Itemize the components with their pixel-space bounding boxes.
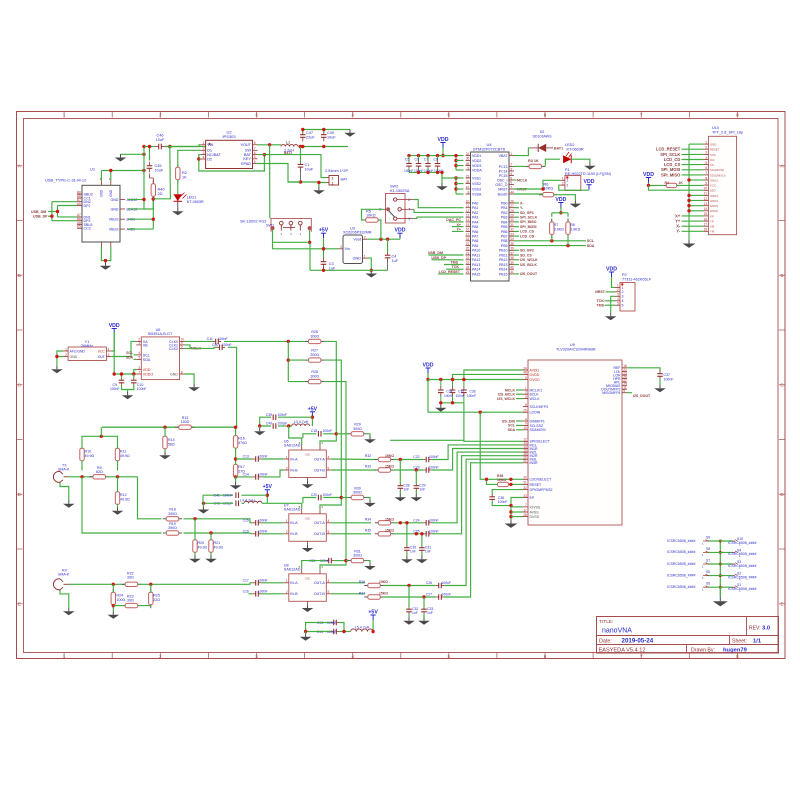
ground R14 <box>159 452 171 459</box>
wire C17 <box>249 583 284 585</box>
wire SDA <box>514 235 595 248</box>
svg-text:2: 2 <box>622 290 624 294</box>
ground R21 <box>205 556 217 563</box>
svg-text:PC15: PC15 <box>499 174 508 178</box>
svg-text:100nF: 100nF <box>444 394 453 398</box>
led LED2 <box>545 143 584 166</box>
wire U10 signal nets <box>656 147 703 178</box>
svg-text:SCL: SCL <box>587 239 595 243</box>
svg-text:2: 2 <box>332 176 334 180</box>
wire C23-IN1R <box>432 449 523 471</box>
wire LDOIN <box>428 380 523 414</box>
svg-text:ICSRC6508_####: ICSRC6508_#### <box>667 573 695 577</box>
svg-text:C4: C4 <box>392 255 397 259</box>
svg-text:Si5351A-B-GT: Si5351A-B-GT <box>148 332 173 336</box>
svg-text:49.9Ω: 49.9Ω <box>120 497 130 501</box>
svg-text:VCC: VCC <box>98 349 106 353</box>
ground U3 <box>366 270 378 277</box>
svg-text:I2S_DOUT: I2S_DOUT <box>633 394 651 398</box>
svg-text:150Ω: 150Ω <box>181 420 190 424</box>
svg-text:ICSRC6508_####: ICSRC6508_#### <box>667 539 695 543</box>
svg-text:3: 3 <box>705 151 707 155</box>
svg-text:300Ω: 300Ω <box>353 491 362 495</box>
wire C37 gnd <box>659 378 661 385</box>
svg-text:NRST: NRST <box>595 290 606 294</box>
svg-text:E: E <box>780 601 783 606</box>
svg-text:GND4: GND4 <box>710 199 718 203</box>
wire U1 top GND rail <box>101 169 145 181</box>
wire PC13-R3 <box>514 165 525 167</box>
capacitor C47 <box>300 131 315 142</box>
svg-text:BAT1: BAT1 <box>554 146 563 150</box>
wire AVDD <box>462 370 523 381</box>
svg-text:EPAD: EPAD <box>241 162 251 166</box>
svg-text:PB9: PB9 <box>501 244 508 248</box>
svg-text:C47: C47 <box>306 131 313 135</box>
resistor R20 <box>193 536 208 556</box>
wire row c42 <box>202 502 244 505</box>
svg-text:12: 12 <box>704 197 708 201</box>
capacitors C34-C36 <box>438 380 476 403</box>
capacitor C17 <box>243 579 268 586</box>
capacitor C33 <box>421 606 433 615</box>
svg-text:11: 11 <box>704 192 708 196</box>
svg-text:100nF: 100nF <box>323 493 333 497</box>
svg-text:USB_TYPE-C-31-M-12: USB_TYPE-C-31-M-12 <box>45 178 87 183</box>
svg-text:PA8: PA8 <box>472 239 478 243</box>
svg-text:8: 8 <box>705 176 707 180</box>
wire TCK u4 <box>446 265 464 269</box>
svg-text:2: 2 <box>364 236 366 240</box>
svg-text:VDD2: VDD2 <box>472 159 481 163</box>
svg-text:LDOIN: LDOIN <box>530 411 541 415</box>
wire VDDA stub <box>456 169 464 171</box>
svg-text:IN3R: IN3R <box>530 461 538 465</box>
svg-text:PB11: PB11 <box>499 253 507 257</box>
svg-text:R4: R4 <box>665 181 669 185</box>
wire Y1 VCC <box>111 332 114 351</box>
svg-text:VDDO: VDDO <box>143 372 154 376</box>
svg-text:8: 8 <box>468 190 470 194</box>
svg-text:1: 1 <box>364 254 366 258</box>
svg-text:OSC_O: OSC_O <box>495 183 508 187</box>
svg-text:C23: C23 <box>413 466 419 470</box>
svg-text:R33: R33 <box>365 465 371 469</box>
wire C24-IN2L <box>432 452 523 523</box>
svg-text:21: 21 <box>466 251 470 255</box>
svg-text:5: 5 <box>617 302 619 306</box>
capacitor C14 <box>243 473 268 480</box>
wire VDD-R4 <box>647 183 704 191</box>
svg-text:IN-B: IN-B <box>290 592 298 596</box>
capacitor C10 <box>131 377 146 391</box>
svg-text:48: 48 <box>523 371 527 375</box>
svg-text:PB7: PB7 <box>501 235 508 239</box>
wire C46 left <box>144 146 155 148</box>
wire C9C10 top <box>120 372 134 378</box>
svg-text:LCD_CS: LCD_CS <box>520 230 535 234</box>
wire SW1 bar <box>273 241 310 243</box>
svg-text:DVSS: DVSS <box>530 515 540 519</box>
wire R18 out <box>184 517 249 520</box>
net labels U4 PB side <box>514 201 538 276</box>
svg-text:10: 10 <box>704 187 708 191</box>
svg-text:L3 4.7uH: L3 4.7uH <box>294 420 309 424</box>
resistor R12 <box>115 488 130 508</box>
svg-text:LED: LED <box>710 189 716 193</box>
svg-text:R32: R32 <box>365 454 371 458</box>
svg-text:SCL: SCL <box>508 424 516 428</box>
net label SCL u5 <box>126 351 136 355</box>
svg-text:300Ω: 300Ω <box>310 353 319 357</box>
wire C14 <box>236 470 284 477</box>
resistor R23 <box>122 595 141 608</box>
svg-text:C1: C1 <box>305 163 310 167</box>
wire C3 bottom <box>323 266 325 270</box>
net label Y+ <box>452 228 464 232</box>
svg-text:PB13: PB13 <box>499 263 508 267</box>
ground U1 top <box>115 153 146 162</box>
wire R36-C26 <box>383 584 436 587</box>
wire BAT rail <box>258 155 327 178</box>
svg-text:2: 2 <box>566 184 568 188</box>
ground LED1 <box>172 201 184 215</box>
wire U2 D2 <box>199 158 201 160</box>
svg-text:RESET: RESET <box>530 483 543 487</box>
wire TX-R18R19 <box>82 477 162 533</box>
wire VOUT down to SW1 <box>269 145 271 219</box>
wire L4 out <box>262 502 267 504</box>
svg-text:12: 12 <box>466 209 470 213</box>
svg-text:OUT-A: OUT-A <box>314 457 326 461</box>
svg-text:1: 1 <box>332 181 334 185</box>
svg-text:16: 16 <box>466 228 470 232</box>
inductor L4 <box>240 499 262 504</box>
wire U6 outB <box>331 469 375 471</box>
wire R21 <box>210 533 212 556</box>
svg-text:PB14: PB14 <box>499 268 508 272</box>
svg-text:C24: C24 <box>413 519 419 523</box>
ground Y1 <box>51 366 63 373</box>
svg-text:36: 36 <box>466 157 470 161</box>
svg-text:C41: C41 <box>214 494 220 498</box>
svg-text:PB2: PB2 <box>501 211 508 215</box>
svg-text:IOVSS: IOVSS <box>530 505 541 509</box>
svg-text:Y-: Y- <box>676 229 681 234</box>
svg-text:SPI_MISO: SPI_MISO <box>661 172 681 177</box>
svg-text:TCK: TCK <box>452 265 460 269</box>
svg-text:nanoVNA: nanoVNA <box>602 627 632 634</box>
svg-text:I2S_BCLK: I2S_BCLK <box>498 393 515 397</box>
ground R29 <box>364 436 376 443</box>
resistor R34 <box>365 518 394 526</box>
svg-text:GND6: GND6 <box>710 209 718 213</box>
svg-text:PB5: PB5 <box>501 225 508 229</box>
svg-text:1/1: 1/1 <box>753 639 762 645</box>
svg-text:VDD1: VDD1 <box>472 154 481 158</box>
svg-text:VBUS: VBUS <box>109 228 119 232</box>
svg-text:L1: L1 <box>286 141 290 145</box>
capacitor C22 <box>413 455 438 462</box>
ground cl u6 <box>254 428 266 435</box>
svg-text:OUT: OUT <box>98 355 105 359</box>
capacitor C46 <box>155 134 166 150</box>
led LED1 <box>174 180 205 204</box>
svg-text:D2: D2 <box>207 157 212 161</box>
resistor R2 <box>176 164 188 183</box>
svg-text:5: 5 <box>622 304 624 308</box>
wire B1A12 <box>128 208 144 210</box>
svg-text:VBAT: VBAT <box>499 154 509 158</box>
capacitor C21 <box>309 558 334 564</box>
svg-text:1: 1 <box>203 141 205 145</box>
svg-text:11: 11 <box>466 204 470 208</box>
svg-text:S5: S5 <box>706 582 710 586</box>
wire SW2 C-R5 <box>362 209 384 220</box>
svg-text:Drawn By:: Drawn By: <box>691 648 715 654</box>
ground U8 <box>302 605 314 612</box>
capacitor C38 <box>489 494 507 504</box>
svg-text:33: 33 <box>523 494 527 498</box>
svg-text:100nF: 100nF <box>258 455 268 459</box>
svg-text:I2S_DIN: I2S_DIN <box>502 419 516 423</box>
svg-text:R8: R8 <box>570 223 575 227</box>
wire cl u6 <box>258 417 312 428</box>
wire clk bus <box>287 341 306 381</box>
ground switches <box>713 587 728 606</box>
wire U7 vcc <box>267 503 301 509</box>
svg-text:35: 35 <box>466 180 470 184</box>
svg-text:17: 17 <box>704 223 708 227</box>
svg-text:3: 3 <box>138 366 140 370</box>
svg-text:OSC: OSC <box>305 576 311 580</box>
wire LCD_RESET u4 <box>438 270 464 274</box>
svg-text:1nF: 1nF <box>419 487 425 491</box>
svg-text:9: 9 <box>468 166 470 170</box>
svg-text:PA7: PA7 <box>472 235 478 239</box>
svg-text:VSS3: VSS3 <box>472 187 481 191</box>
wire U2 NC/BAT-D2 loop <box>197 153 266 171</box>
svg-text:C35: C35 <box>458 390 464 394</box>
resistor R8 <box>566 218 581 238</box>
wire C21 left <box>302 561 326 569</box>
svg-text:GND: GND <box>710 143 716 147</box>
svg-text:SDO(MISO): SDO(MISO) <box>710 173 726 177</box>
ground R30 <box>364 500 376 507</box>
wire C1 bottom <box>288 169 319 184</box>
wire U10 touch nets <box>675 213 703 233</box>
net label X+ <box>452 223 464 227</box>
svg-text:41: 41 <box>510 270 514 274</box>
wire REF-C37 <box>627 368 660 372</box>
svg-text:3.9KΩ: 3.9KΩ <box>570 227 580 231</box>
svg-text:TCK: TCK <box>597 299 605 303</box>
capacitor C31 <box>419 545 431 554</box>
svg-text:3: 3 <box>525 395 527 399</box>
svg-text:1nF: 1nF <box>427 611 433 615</box>
svg-text:C36: C36 <box>470 390 476 394</box>
svg-text:AVDD: AVDD <box>530 368 540 372</box>
svg-text:C6: C6 <box>415 157 419 161</box>
capacitor C40 u6 <box>266 422 287 429</box>
svg-text:C16: C16 <box>243 590 249 594</box>
wire R4-LED pin <box>678 184 704 186</box>
svg-text:PB1: PB1 <box>501 206 508 210</box>
ground C28 <box>395 494 407 501</box>
svg-text:B: B <box>18 273 21 278</box>
wire TMS u4 <box>444 261 464 265</box>
wire SW2-PA1 <box>414 200 464 208</box>
wire R16-R17 <box>234 426 237 483</box>
ground U9 <box>505 520 518 528</box>
svg-text:C27: C27 <box>426 593 432 597</box>
svg-text:LED1: LED1 <box>187 196 197 200</box>
svg-text:C14: C14 <box>243 473 249 477</box>
svg-text:SK-12D02-VG3: SK-12D02-VG3 <box>240 219 266 223</box>
net label MCLK u5 <box>185 345 202 350</box>
crystal Y1 26MHz <box>63 340 111 361</box>
wire C45 top <box>148 145 151 161</box>
svg-text:10uF: 10uF <box>327 135 336 139</box>
svg-text:4: 4 <box>328 579 330 583</box>
svg-text:2: 2 <box>408 198 410 202</box>
svg-text:100nF: 100nF <box>498 500 508 504</box>
capacitor C9 <box>110 377 124 391</box>
wire R30-gnd <box>341 498 370 500</box>
svg-text:IN-A: IN-A <box>290 521 298 525</box>
svg-text:USB_DM: USB_DM <box>31 210 46 214</box>
ground TX <box>63 501 75 508</box>
wire U1 bottom gnd <box>101 247 110 263</box>
ground LED2 <box>584 163 596 170</box>
capacitor C16u7 <box>243 530 268 537</box>
svg-text:23: 23 <box>466 261 470 265</box>
wire U7 outB <box>331 533 371 535</box>
svg-text:21: 21 <box>523 459 527 463</box>
wire DVDD <box>451 374 523 381</box>
svg-text:Vin: Vin <box>345 247 350 251</box>
wire L1 right <box>284 145 348 155</box>
svg-text:EASYEDA V5.4.12: EASYEDA V5.4.12 <box>599 647 646 653</box>
svg-text:TITLE:: TITLE: <box>599 619 613 625</box>
svg-text:PA5: PA5 <box>472 225 478 229</box>
svg-text:ICSRC6508_####: ICSRC6508_#### <box>667 550 695 554</box>
ground 5v u8 <box>300 634 312 641</box>
wire gnd rail 270 <box>310 269 388 272</box>
wire R37-C27 <box>383 595 436 598</box>
wire TMS-P2 <box>596 304 615 308</box>
switches S1-S10 <box>667 536 756 597</box>
wire VDD rail u9 <box>426 373 523 381</box>
svg-text:R14: R14 <box>168 438 175 442</box>
wire R32-C22 <box>394 458 424 461</box>
ground caps U4 <box>436 172 448 190</box>
svg-text:2: 2 <box>286 466 288 470</box>
svg-text:1: 1 <box>566 179 568 183</box>
connector BAT 2.54mm <box>325 169 348 185</box>
svg-text:1: 1 <box>286 519 288 523</box>
svg-text:13: 13 <box>466 214 470 218</box>
wire C9C10 bottom <box>122 385 134 390</box>
svg-text:1nF: 1nF <box>412 611 418 615</box>
resistor R17 <box>233 461 245 481</box>
capacitor C49 <box>321 131 336 142</box>
clock generator U5 Si5351 <box>136 328 184 380</box>
wire C27-IN3R <box>444 463 523 597</box>
svg-text:GND: GND <box>111 207 119 211</box>
wire R9-R11 <box>107 475 138 478</box>
wire USB_DM/DP <box>31 202 77 221</box>
svg-text:GPIOMFP5/32: GPIOMFP5/32 <box>530 488 553 492</box>
wire R12 <box>117 477 119 508</box>
net label MCLK u4 <box>514 178 528 182</box>
svg-text:ICSRC6508_####: ICSRC6508_#### <box>728 564 756 568</box>
svg-text:C26: C26 <box>426 581 432 585</box>
capacitor C32 <box>406 606 418 615</box>
svg-text:PA13: PA13 <box>472 263 480 267</box>
svg-text:KEY: KEY <box>243 157 251 161</box>
wire +5V u6 <box>311 416 314 427</box>
svg-text:SCLSSZ: SCLSSZ <box>530 424 544 428</box>
svg-text:SDA: SDA <box>587 244 595 248</box>
svg-text:PA14: PA14 <box>472 268 480 272</box>
svg-text:1nF: 1nF <box>410 549 416 553</box>
svg-text:1: 1 <box>286 455 288 459</box>
ground C32 <box>403 618 415 625</box>
svg-text:31: 31 <box>510 223 514 227</box>
svg-text:SDA: SDA <box>126 355 134 359</box>
svg-text:2: 2 <box>286 590 288 594</box>
svg-text:7: 7 <box>525 503 527 507</box>
ground U10 <box>683 240 696 248</box>
svg-text:15KΩ: 15KΩ <box>379 592 388 596</box>
svg-text:OSC_I: OSC_I <box>497 178 508 182</box>
svg-text:PC14: PC14 <box>499 169 508 173</box>
svg-text:SDI(MOSI): SDI(MOSI) <box>710 168 724 172</box>
svg-text:1: 1 <box>622 286 624 290</box>
wire R40 bottom <box>144 197 155 209</box>
svg-text:10KΩ: 10KΩ <box>497 478 506 482</box>
svg-text:R37: R37 <box>359 592 365 596</box>
wire TCK-P2 <box>597 299 615 303</box>
resistor R31 <box>348 549 367 562</box>
ground R31 <box>364 563 376 570</box>
svg-text:A: A <box>780 163 783 168</box>
ground U1 bottom <box>100 263 112 270</box>
svg-text:100nF: 100nF <box>278 413 288 417</box>
capacitor C4 <box>385 251 399 263</box>
wire C30 <box>405 521 408 556</box>
svg-text:LED2: LED2 <box>565 143 575 147</box>
svg-text:U10: U10 <box>712 126 719 130</box>
svg-text:L5 4.7uH: L5 4.7uH <box>355 626 370 630</box>
svg-text:U1: U1 <box>90 167 96 172</box>
svg-text:S7: S7 <box>706 559 710 563</box>
svg-text:P2: P2 <box>622 273 627 277</box>
svg-text:R7: R7 <box>554 223 559 227</box>
svg-text:10uF: 10uF <box>305 167 314 171</box>
svg-text:1: 1 <box>286 579 288 583</box>
svg-text:I2S_WCLK: I2S_WCLK <box>520 258 538 262</box>
svg-text:PB10: PB10 <box>499 249 508 253</box>
capacitor C24 <box>413 519 438 526</box>
svg-text:SCL: SCL <box>143 353 150 357</box>
svg-text:R40: R40 <box>158 188 165 192</box>
svg-text:33: 33 <box>510 232 514 236</box>
svg-text:2: 2 <box>705 146 707 150</box>
ground U6 <box>302 481 314 488</box>
wire LED2-gnd <box>571 159 590 162</box>
